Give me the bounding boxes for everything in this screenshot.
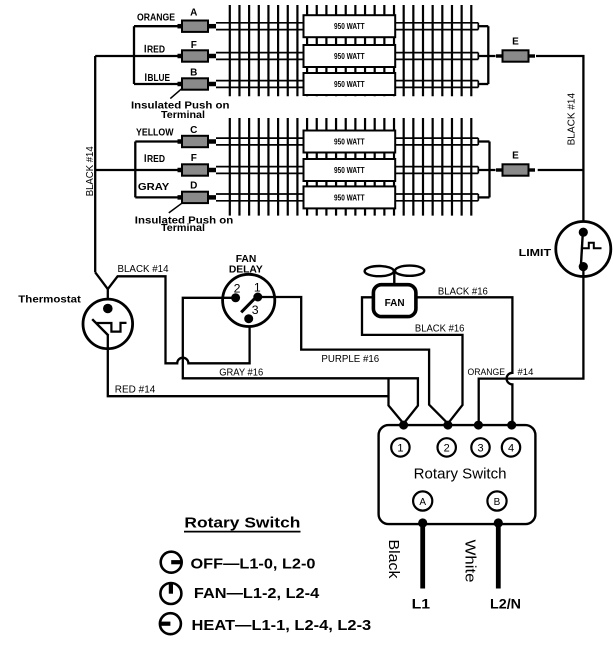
svg-text:3: 3 [477, 442, 483, 454]
svg-text:RED #14: RED #14 [115, 385, 156, 396]
svg-text:Rotary Switch: Rotary Switch [184, 515, 300, 532]
svg-text:RED: RED [147, 44, 165, 55]
svg-text:GRAY: GRAY [138, 182, 170, 193]
svg-text:B: B [190, 68, 197, 79]
svg-text:L2/N: L2/N [490, 597, 521, 612]
svg-text:YELLOW: YELLOW [136, 127, 174, 138]
svg-text:Terminal: Terminal [161, 223, 205, 234]
svg-text:LIMIT: LIMIT [519, 247, 552, 259]
svg-text:950 WATT: 950 WATT [334, 137, 365, 146]
svg-text:PURPLE #16: PURPLE #16 [321, 354, 379, 365]
svg-text:2: 2 [234, 281, 241, 295]
svg-text:BLACK #16: BLACK #16 [415, 324, 465, 335]
svg-text:950 WATT: 950 WATT [334, 22, 365, 31]
svg-text:White: White [462, 540, 479, 583]
svg-text:950 WATT: 950 WATT [334, 80, 365, 89]
svg-text:FAN: FAN [236, 254, 257, 265]
svg-text:Thermostat: Thermostat [18, 294, 81, 306]
svg-text:BLACK #14: BLACK #14 [567, 92, 578, 145]
svg-text:OFF—L1-0, L2-0: OFF—L1-0, L2-0 [191, 555, 316, 572]
svg-text:B: B [494, 497, 501, 508]
svg-text:BLACK #14: BLACK #14 [85, 146, 96, 196]
svg-text:FAN—L1-2, L2-4: FAN—L1-2, L2-4 [194, 585, 320, 602]
svg-text:C: C [190, 125, 197, 136]
svg-text:4: 4 [508, 442, 514, 454]
svg-text:3: 3 [252, 303, 259, 317]
svg-text:BLACK #14: BLACK #14 [118, 264, 169, 275]
svg-text:Rotary Switch: Rotary Switch [414, 466, 507, 482]
svg-text:950 WATT: 950 WATT [334, 52, 365, 61]
svg-text:D: D [190, 181, 197, 192]
svg-text:A: A [419, 497, 426, 508]
svg-text:FAN: FAN [385, 298, 405, 309]
svg-text:L1: L1 [412, 597, 431, 612]
svg-text:#14: #14 [518, 367, 534, 378]
svg-text:Terminal: Terminal [161, 110, 205, 121]
svg-text:950 WATT: 950 WATT [334, 166, 365, 175]
svg-text:BLUE: BLUE [148, 73, 171, 84]
svg-text:2: 2 [444, 442, 450, 454]
svg-text:1: 1 [254, 280, 261, 294]
svg-text:BLACK #16: BLACK #16 [438, 287, 488, 298]
svg-text:1: 1 [397, 442, 403, 454]
svg-text:HEAT—L1-1, L2-4, L2-3: HEAT—L1-1, L2-4, L2-3 [192, 617, 372, 634]
svg-text:ORANGE: ORANGE [137, 12, 175, 23]
svg-text:GRAY #16: GRAY #16 [219, 368, 263, 379]
svg-text:F: F [191, 153, 197, 164]
svg-text:DELAY: DELAY [229, 264, 263, 275]
svg-text:RED: RED [147, 154, 165, 165]
svg-text:A: A [190, 8, 197, 19]
svg-text:950 WATT: 950 WATT [334, 193, 365, 202]
svg-text:E: E [512, 151, 519, 162]
svg-text:E: E [512, 37, 519, 48]
svg-text:Black: Black [385, 540, 402, 580]
svg-text:F: F [191, 40, 197, 51]
svg-text:ORANGE: ORANGE [468, 367, 506, 378]
